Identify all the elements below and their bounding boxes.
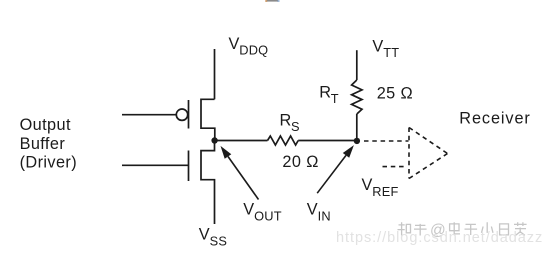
wire RT to VIN node xyxy=(356,114,358,141)
node VIN junction dot xyxy=(354,138,360,144)
wire dashed VIN to receiver xyxy=(364,140,409,142)
svg-text:V: V xyxy=(243,201,254,219)
svg-text:25 Ω: 25 Ω xyxy=(377,85,413,103)
svg-text:REF: REF xyxy=(372,184,398,199)
svg-text:20 Ω: 20 Ω xyxy=(282,153,318,171)
transistor Q1 PMOS gate bubble xyxy=(176,109,187,120)
label Output Buffer (Driver) xyxy=(20,116,77,172)
svg-text:(Driver): (Driver) xyxy=(20,154,77,172)
svg-text:SS: SS xyxy=(210,233,227,248)
wire VTT top xyxy=(356,50,358,80)
label RS xyxy=(280,111,300,134)
svg-text:V: V xyxy=(362,176,373,194)
wire PMOS gate input xyxy=(122,114,176,116)
resistor RS zigzag xyxy=(268,136,299,145)
wire VDDQ drain xyxy=(214,49,216,99)
resistor RT zigzag xyxy=(352,80,362,114)
svg-text:DDQ: DDQ xyxy=(239,43,268,58)
receiver U1 dashed triangle bottom edge xyxy=(409,154,448,179)
label RT xyxy=(319,83,339,106)
arrow to VOUT xyxy=(221,146,259,200)
wire dashed VREF stub xyxy=(383,166,407,168)
svg-text:Output: Output xyxy=(20,116,71,134)
receiver U1 dashed triangle left edge xyxy=(408,128,410,179)
svg-text:https://blog.csdn.net/dadazz: https://blog.csdn.net/dadazz xyxy=(336,230,543,246)
label VOUT xyxy=(243,201,281,224)
transistor Q2 NMOS gate bar xyxy=(188,151,190,182)
svg-text:S: S xyxy=(291,119,300,134)
node VOUT junction dot xyxy=(211,137,217,143)
svg-text:TT: TT xyxy=(383,45,399,60)
svg-text:OUT: OUT xyxy=(254,209,282,224)
svg-text:V: V xyxy=(307,201,318,219)
label VIN xyxy=(307,201,331,224)
wire NMOS gate input xyxy=(122,164,189,166)
svg-text:V: V xyxy=(199,226,210,244)
svg-text:T: T xyxy=(331,91,339,106)
transistor Q1 PMOS gate bar xyxy=(188,100,190,129)
wire RS to VIN node xyxy=(298,140,357,142)
svg-text:Receiver: Receiver xyxy=(459,109,530,127)
label VTT xyxy=(372,38,399,60)
wire VOUT to RS xyxy=(215,140,268,142)
svg-text:IN: IN xyxy=(318,209,331,224)
svg-text:R: R xyxy=(280,111,292,129)
label VREF xyxy=(362,176,399,199)
label VSS xyxy=(199,226,227,249)
svg-text:Buffer: Buffer xyxy=(20,135,66,153)
label VDDQ xyxy=(229,35,269,58)
cropped title fragment top center xyxy=(265,0,279,2)
transistor Q1 PMOS channel xyxy=(201,99,215,140)
watermark zhihu xyxy=(398,222,527,239)
arrow to VIN xyxy=(317,145,354,193)
svg-text:V: V xyxy=(372,38,383,56)
svg-text:R: R xyxy=(319,83,331,101)
receiver U1 dashed triangle top edge xyxy=(409,128,448,154)
svg-text:V: V xyxy=(229,35,240,53)
transistor Q2 NMOS channel xyxy=(201,141,215,225)
